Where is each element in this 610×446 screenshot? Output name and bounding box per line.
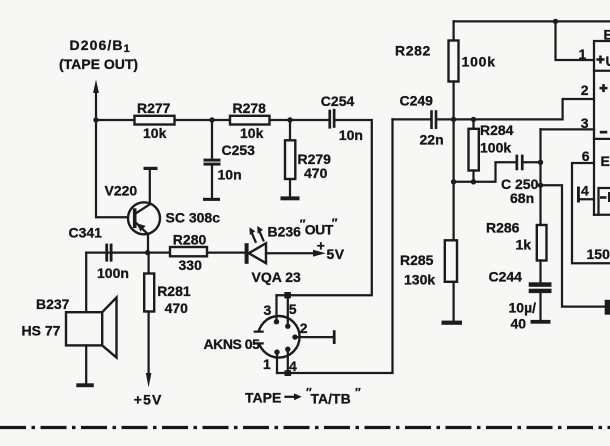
svg-text:330: 330 <box>179 257 203 273</box>
wire C254 to DIN pin5 <box>277 120 372 295</box>
svg-text:1: 1 <box>263 356 271 372</box>
svg-text:68n: 68n <box>510 190 534 206</box>
IC amplifier box <box>594 27 610 215</box>
resistor R286 <box>486 220 547 283</box>
svg-text:150: 150 <box>587 246 610 262</box>
dash-dot bottom border <box>0 426 610 429</box>
svg-text:R281: R281 <box>157 283 191 299</box>
wire collector up <box>149 169 151 204</box>
node junction dot R279 <box>287 117 292 122</box>
LED B236 VQA23 <box>245 216 338 285</box>
speaker B237 HS77 <box>22 253 117 384</box>
wire C249 to IC pin2 <box>437 99 594 119</box>
ground below R279 <box>281 196 300 200</box>
wire DIN pin1 down <box>276 352 278 373</box>
svg-text:470: 470 <box>165 300 189 316</box>
node junction dot emitter <box>145 250 150 255</box>
node junction dot C250 <box>538 160 543 165</box>
svg-text:22n: 22n <box>420 132 444 148</box>
wire pin3 to IC <box>541 128 595 130</box>
svg-text:V220: V220 <box>105 183 138 199</box>
wire pin3 riser <box>539 129 541 225</box>
svg-text:130k: 130k <box>404 272 435 288</box>
svg-text:3: 3 <box>581 115 589 131</box>
ground below speaker <box>76 383 94 387</box>
resistor R280 <box>170 232 207 274</box>
svg-text:+5V: +5V <box>134 391 163 407</box>
output terminator bar <box>605 300 610 315</box>
svg-text:″: ″ <box>355 386 361 400</box>
svg-text:R284: R284 <box>480 122 514 138</box>
svg-text:4: 4 <box>581 183 589 199</box>
svg-text:″: ″ <box>332 216 338 230</box>
svg-text:OUT: OUT <box>305 222 334 238</box>
+5V supply arrow below R281 <box>134 373 163 407</box>
svg-text:R286: R286 <box>486 220 520 236</box>
label TAPE TA/TB <box>245 386 361 407</box>
node junction dot R282 branch <box>451 117 456 122</box>
wire LED to +5V <box>266 252 315 254</box>
svg-text:+: + <box>317 238 325 254</box>
svg-text:10n: 10n <box>218 167 242 183</box>
svg-text:10µ/: 10µ/ <box>509 300 537 316</box>
svg-text:C341: C341 <box>69 224 103 240</box>
svg-text:5V: 5V <box>327 246 345 262</box>
wire output branch to edge <box>541 185 605 306</box>
capacitor C244 <box>489 269 552 332</box>
resistor R278 <box>230 100 270 141</box>
svg-text:TA/TB: TA/TB <box>311 391 351 407</box>
ground below R285 <box>442 321 463 325</box>
resistor R282 <box>395 21 496 119</box>
svg-text:SC 308c: SC 308c <box>166 210 221 226</box>
collector rail bar <box>144 167 158 170</box>
wire top supply rail <box>454 20 610 22</box>
wire DIN pin2 stub <box>295 330 336 344</box>
capacitor C249 <box>393 93 444 148</box>
capacitor C250 <box>501 155 539 206</box>
DIN connector AKNS 05 <box>204 316 300 358</box>
svg-text:AKNS 05: AKNS 05 <box>204 336 261 352</box>
svg-text:100k: 100k <box>480 140 511 156</box>
svg-text:R282: R282 <box>395 43 431 59</box>
svg-text:2: 2 <box>581 82 589 98</box>
wire base branch <box>96 120 135 217</box>
ground below C253 <box>203 198 220 201</box>
svg-text:470: 470 <box>304 165 328 181</box>
node junction dot C253 <box>209 117 214 122</box>
resistor R284 <box>469 119 514 181</box>
svg-text:10n: 10n <box>339 127 363 143</box>
node junction dot R284 branch <box>471 117 476 122</box>
capacitor C253 <box>204 120 256 198</box>
pin4 terminator <box>577 183 594 203</box>
node junction dot base branch <box>93 117 98 122</box>
node junction dot feedback branch <box>451 179 456 184</box>
svg-text:B236: B236 <box>268 224 302 240</box>
svg-text:TAPE: TAPE <box>245 390 281 406</box>
svg-text:B: B <box>604 27 610 43</box>
svg-text:2: 2 <box>300 320 308 336</box>
svg-text:D206/B1: D206/B1 <box>70 37 131 55</box>
ground below C244 <box>531 320 551 324</box>
svg-text:E: E <box>601 153 610 169</box>
+5V arrow right <box>313 238 345 262</box>
svg-text:100k: 100k <box>462 54 496 70</box>
wire DIN pin3 up <box>275 295 277 322</box>
wire emitter down <box>147 234 149 253</box>
svg-text:B237: B237 <box>36 296 70 312</box>
svg-text:1: 1 <box>579 46 587 62</box>
wire lower rail <box>86 251 245 253</box>
wire to IC pin1 <box>556 21 595 60</box>
wire DIN pin4 down <box>287 349 289 373</box>
svg-text:HS 77: HS 77 <box>22 323 61 339</box>
node junction dot pin4 bottom <box>285 370 292 376</box>
resistor R279 <box>285 120 331 196</box>
resistor R277 <box>135 100 175 141</box>
svg-text:40: 40 <box>511 316 527 332</box>
svg-text:C253: C253 <box>222 142 256 158</box>
svg-text:10k: 10k <box>143 125 167 141</box>
svg-text:C254: C254 <box>321 93 355 109</box>
svg-text:R277: R277 <box>137 100 171 116</box>
capacitor C254 <box>321 93 363 143</box>
svg-text:3: 3 <box>264 302 272 318</box>
resistor R281 <box>144 253 191 378</box>
wire main top rail <box>96 119 327 121</box>
wire feedback run to C250 <box>454 162 516 182</box>
wire C250 to pin3 riser <box>524 161 541 163</box>
svg-text:10k: 10k <box>240 125 264 141</box>
wire R285 riser <box>452 119 454 240</box>
svg-text:100n: 100n <box>97 265 129 281</box>
svg-text:R285: R285 <box>400 252 434 268</box>
svg-text:R280: R280 <box>173 232 207 248</box>
svg-text:(TAPE OUT): (TAPE OUT) <box>59 56 138 72</box>
resistor R285 <box>400 240 457 320</box>
node junction dot R284 bottom <box>471 179 476 184</box>
svg-text:VQA 23: VQA 23 <box>252 269 301 285</box>
node junction dot pin5 top <box>284 292 291 298</box>
svg-text:R278: R278 <box>233 100 267 116</box>
svg-text:6: 6 <box>582 148 590 164</box>
node junction dot top rail <box>553 19 558 24</box>
node D206/B1 (TAPE OUT) label <box>59 37 138 72</box>
svg-text:5: 5 <box>289 301 297 317</box>
wire DIN pin5 up <box>287 295 289 326</box>
wire DIN bottom to C249 riser <box>277 119 393 373</box>
svg-text:C244: C244 <box>489 269 523 285</box>
node junction dot output branch <box>538 183 543 188</box>
svg-text:1k: 1k <box>516 237 532 253</box>
svg-text:C249: C249 <box>400 93 434 109</box>
tape out arrow terminal <box>93 80 99 121</box>
svg-text:U: U <box>606 53 610 69</box>
transistor V220 <box>105 183 221 235</box>
capacitor C341 <box>69 224 129 281</box>
wire pin6 <box>572 163 610 263</box>
